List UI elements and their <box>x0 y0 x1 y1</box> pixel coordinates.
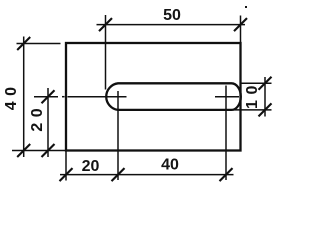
svg-text:20: 20 <box>82 158 100 175</box>
svg-text:20: 20 <box>29 103 46 132</box>
svg-text:40: 40 <box>161 156 179 173</box>
svg-text:10: 10 <box>244 80 261 109</box>
svg-text:50: 50 <box>163 7 181 24</box>
svg-text:40: 40 <box>3 81 20 110</box>
